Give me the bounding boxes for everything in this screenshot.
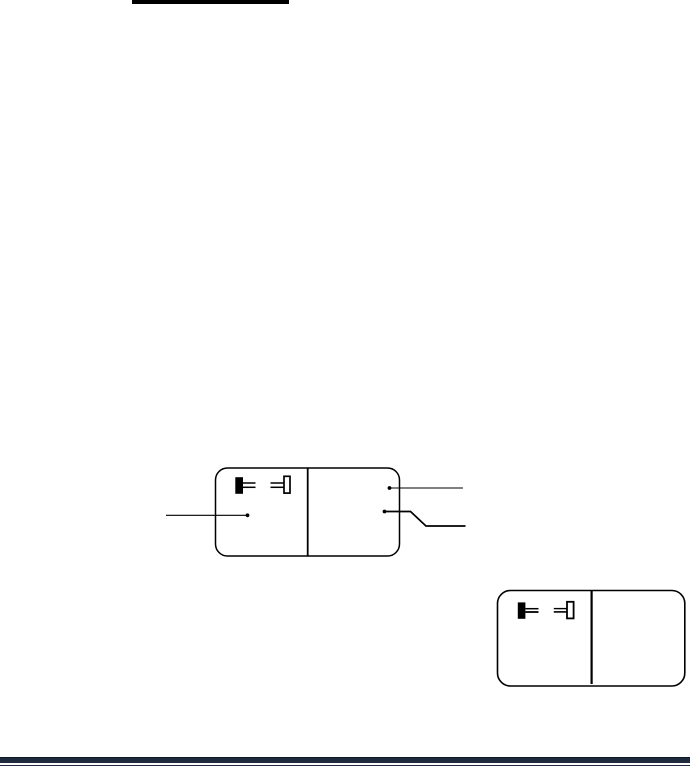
next page top edge bar bbox=[0, 765, 690, 766]
device box U1 divider bbox=[307, 468, 309, 556]
connector symbol J4 (hollow socket) bbox=[554, 602, 574, 619]
device box U1 outline bbox=[216, 468, 400, 556]
device box U2 divider bbox=[590, 591, 592, 684]
node A terminal dot bbox=[246, 513, 250, 517]
node B terminal dot bbox=[388, 486, 392, 490]
wire to node A bbox=[166, 514, 248, 516]
bottom page separator bar bbox=[0, 757, 690, 763]
node C terminal dot bbox=[383, 510, 387, 514]
wire from node B bbox=[390, 487, 464, 489]
device box U2 outline bbox=[498, 591, 685, 687]
connector symbol J3 (filled plug) bbox=[518, 602, 539, 618]
connector symbol J2 (hollow socket) bbox=[271, 476, 291, 493]
wire from node C bbox=[385, 512, 466, 527]
heading underline rule bbox=[132, 0, 289, 4]
connector symbol J1 (filled plug) bbox=[235, 477, 255, 494]
